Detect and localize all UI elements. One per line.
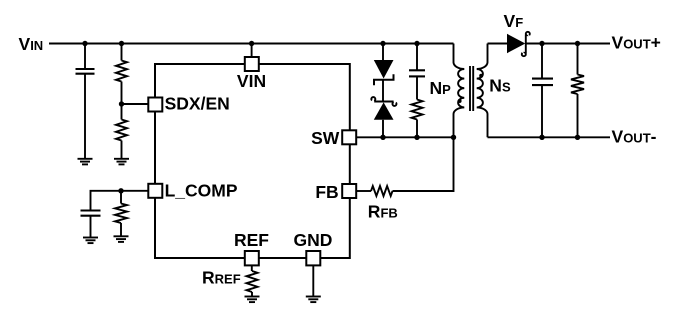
pin REF (245, 251, 259, 265)
transformer T1 primary winding (454, 44, 465, 138)
wire comp resistor top lead (120, 191, 122, 204)
pin L_COMP (148, 184, 162, 198)
node zener top junction (380, 41, 385, 46)
wire VIN pin stub (251, 44, 253, 58)
resistor R2 divider bottom (116, 120, 127, 141)
wire secondary top to diode (488, 43, 508, 45)
wire zener middle (382, 80, 384, 102)
transformer T1 secondary phase dot (479, 74, 483, 78)
svg-text:L_COMP: L_COMP (165, 181, 238, 201)
resistor R3 comp (115, 204, 127, 224)
resistor R5 load (571, 75, 584, 95)
ground comp resistor (114, 236, 129, 242)
node divider mid (119, 101, 124, 106)
wire comp cap bottom lead (90, 217, 92, 238)
node load bottom (575, 135, 580, 140)
wire load bottom lead (577, 94, 579, 137)
wire top input rail (49, 43, 454, 45)
node VIN pin junction (249, 41, 254, 46)
wire input cap bottom lead (84, 75, 86, 159)
wire load top lead (577, 44, 579, 75)
wire SW rail (356, 136, 453, 138)
zener diode D1 (374, 60, 394, 85)
pin SDX/EN (148, 98, 162, 112)
wire R2 top lead (121, 104, 123, 120)
node comp junction (118, 188, 123, 193)
pin GND (306, 251, 320, 265)
capacitor C3 snubber (409, 70, 425, 76)
wire divider mid to SDX/EN pin (122, 103, 149, 105)
wire output top rail (526, 43, 610, 45)
wire RREF bottom lead (251, 292, 253, 297)
ground input cap (78, 159, 93, 165)
wire input cap top lead (84, 44, 86, 69)
wire output bottom rail (488, 136, 611, 138)
node primary bottom junction (451, 135, 456, 140)
wire RFB to SW rail (393, 137, 454, 191)
transformer T1 primary phase dot (458, 99, 462, 103)
wire snubber bottom lead (416, 120, 418, 138)
svg-text:SW: SW (311, 128, 340, 148)
node snubber top junction (414, 41, 419, 46)
wire R1 top lead (121, 44, 123, 61)
svg-text:VIN: VIN (237, 71, 266, 91)
resistor RREF (247, 271, 258, 292)
node output cap bottom (539, 135, 544, 140)
wire output cap bottom lead (541, 86, 543, 137)
schottky diode D2 (371, 97, 396, 120)
wire comp resistor bottom lead (120, 223, 122, 236)
transformer T1 core (470, 66, 473, 111)
svg-text:REF: REF (234, 230, 269, 250)
pin VIN (245, 57, 259, 71)
pin FB (342, 184, 356, 198)
resistor RFB (371, 186, 393, 196)
wire output cap top lead (541, 44, 543, 78)
wire R1 to divider mid (121, 82, 123, 105)
svg-text:SDX/EN: SDX/EN (165, 93, 230, 113)
svg-text:FB: FB (315, 182, 338, 202)
wire L_COMP to comp network (91, 191, 149, 210)
wire R2 bottom lead (121, 141, 123, 159)
wire snubber mid lead (416, 77, 418, 99)
node load top (575, 41, 580, 46)
svg-text:GND: GND (294, 230, 333, 250)
resistor R4 snubber (412, 100, 423, 120)
resistor R1 divider top (116, 61, 127, 82)
ground divider (114, 159, 129, 165)
node input cap junction (82, 41, 87, 46)
pin SW (342, 130, 356, 144)
node zener bottom junction (380, 135, 385, 140)
ground comp cap (83, 238, 98, 244)
wire FB to RFB (356, 190, 371, 192)
wire REF pin lead (251, 265, 253, 271)
ground RREF (245, 297, 260, 303)
transformer T1 secondary winding (477, 44, 488, 138)
wire GND pin lead (312, 265, 314, 296)
ground GND pin (306, 297, 321, 303)
node output cap top (539, 41, 544, 46)
capacitor C1 input (76, 69, 95, 74)
wire zener bottom lead (382, 120, 384, 138)
capacitor C4 output (532, 79, 553, 86)
capacitor C2 comp (81, 211, 101, 216)
wire zener top lead (382, 44, 384, 61)
diode VF schottky (507, 32, 530, 56)
IC U1 body (155, 64, 350, 258)
node snubber bottom junction (414, 135, 419, 140)
node divider junction top (119, 41, 124, 46)
wire snubber cap top lead (416, 44, 418, 70)
